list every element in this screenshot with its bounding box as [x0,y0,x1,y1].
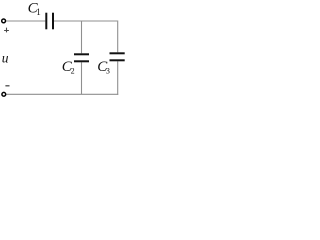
svg-text:2: 2 [71,67,75,76]
capacitor C2 plates [74,54,89,61]
terminal bottom-left [2,92,6,96]
minus sign [5,85,9,87]
wire C2 branch upper [81,21,83,53]
wire top from terminal to C1 left plate [6,20,45,22]
wire C2 branch lower [81,62,83,94]
terminal top-left [2,19,6,23]
capacitor C3 plates [110,53,125,60]
wire top from C1 right plate to top-right corner [54,20,117,22]
wire right side / C3 branch upper [117,20,119,52]
plus sign [4,28,9,33]
svg-text:u: u [2,51,9,66]
wire bottom [6,93,118,95]
svg-text:1: 1 [36,7,41,17]
capacitor C1 plates [46,13,53,30]
wire C3 branch lower to bottom-right corner [117,61,119,95]
svg-text:3: 3 [106,67,110,76]
